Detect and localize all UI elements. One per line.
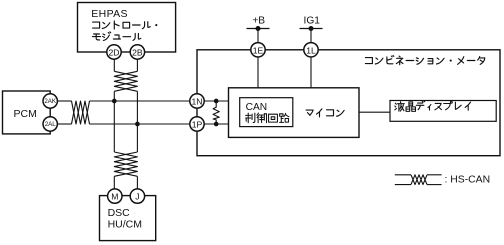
svg-text:2AL: 2AL xyxy=(45,121,57,128)
svg-text:1P: 1P xyxy=(192,120,203,130)
svg-text:DSC: DSC xyxy=(108,207,131,219)
svg-text:2B: 2B xyxy=(132,48,143,58)
svg-text:PCM: PCM xyxy=(14,108,37,120)
svg-text:J: J xyxy=(135,192,139,202)
svg-text:+B: +B xyxy=(252,15,265,26)
svg-text:HU/CM: HU/CM xyxy=(108,218,142,230)
svg-text:CAN: CAN xyxy=(246,102,268,113)
svg-text:: HS-CAN: : HS-CAN xyxy=(445,175,491,186)
svg-text:EHPAS: EHPAS xyxy=(91,8,128,20)
svg-text:1E: 1E xyxy=(253,45,264,55)
svg-text:1L: 1L xyxy=(306,45,316,55)
svg-text:2AK: 2AK xyxy=(44,98,57,105)
svg-text:M: M xyxy=(111,192,118,202)
svg-text:2D: 2D xyxy=(109,48,120,58)
svg-text:1N: 1N xyxy=(192,97,203,107)
svg-text:IG1: IG1 xyxy=(303,15,320,26)
